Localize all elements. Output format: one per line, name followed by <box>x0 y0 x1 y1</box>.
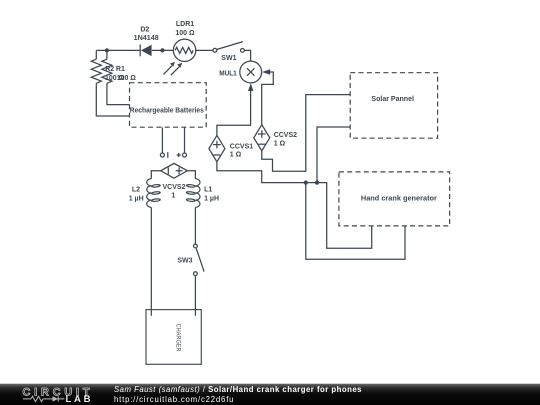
svg-text:1 µH: 1 µH <box>204 196 219 203</box>
svg-text:1: 1 <box>171 193 175 200</box>
svg-text:100 Ω: 100 Ω <box>175 30 195 37</box>
svg-text:R1: R1 <box>116 66 125 73</box>
svg-text:D2: D2 <box>140 26 149 33</box>
svg-text:1 Ω: 1 Ω <box>230 151 242 158</box>
svg-text:Rechargeable Batteries: Rechargeable Batteries <box>130 108 204 115</box>
svg-text:CCVS1: CCVS1 <box>230 143 253 150</box>
svg-text:Sam Faust (samfaust) / Solar/H: Sam Faust (samfaust) / Solar/Hand crank … <box>114 385 362 394</box>
svg-text:SW3: SW3 <box>177 257 192 264</box>
svg-text:SW1: SW1 <box>221 55 236 62</box>
svg-text:VCVS2: VCVS2 <box>163 184 186 191</box>
svg-text:LAB: LAB <box>66 394 91 405</box>
svg-text:LDR1: LDR1 <box>176 21 194 28</box>
svg-text:Solar Pannel: Solar Pannel <box>371 96 414 103</box>
svg-text:1N4148: 1N4148 <box>134 35 159 42</box>
svg-text:1 Ω: 1 Ω <box>274 141 286 148</box>
svg-text:MUL1: MUL1 <box>219 71 237 78</box>
svg-text:http://circuitlab.com/c22d6fu: http://circuitlab.com/c22d6fu <box>114 395 234 404</box>
svg-text:Hand crank generator: Hand crank generator <box>361 196 437 203</box>
svg-text:L1: L1 <box>204 187 212 194</box>
svg-text:1 µH: 1 µH <box>129 196 144 203</box>
svg-text:CCVS2: CCVS2 <box>274 132 297 139</box>
svg-text:CHARGER: CHARGER <box>175 324 182 352</box>
svg-text:L2: L2 <box>132 187 140 194</box>
svg-text:R2: R2 <box>105 66 114 73</box>
svg-text:100 Ω: 100 Ω <box>117 75 137 82</box>
